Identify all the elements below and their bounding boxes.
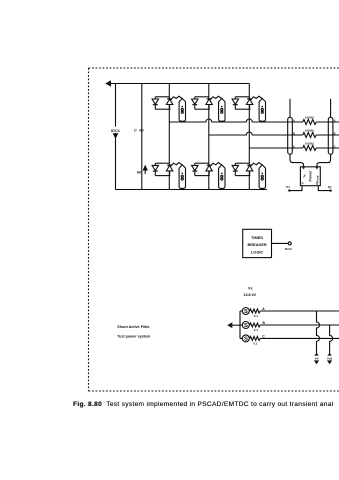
svg-text:C: C [134, 129, 137, 133]
wire: top DC bus [106, 83, 249, 85]
thyristor (forward) [232, 97, 238, 109]
wire: right bus to power meter "From" [317, 154, 331, 167]
wire: converter leg 2 vertical [208, 84, 210, 190]
thyristor (antiparallel) [166, 165, 172, 175]
resistor 0.0001 phase A [303, 120, 316, 125]
resistor 0.1 phase B [250, 323, 261, 327]
svg-text:C: C [293, 144, 295, 148]
svg-text:Power: Power [309, 170, 313, 181]
wire: anode tie [195, 96, 209, 98]
terminal Q1 [318, 186, 330, 191]
svg-text:A: A [293, 118, 295, 122]
wire: anode tie [195, 162, 209, 164]
wire: DC capacitor branch vertical [141, 84, 143, 190]
resistor 0.0001 phase C [303, 146, 316, 151]
svg-text:60: 60 [139, 129, 143, 133]
svg-text:0.1: 0.1 [254, 328, 259, 332]
svg-text:0.0001: 0.0001 [305, 115, 315, 119]
wire: stubs bus to sources [240, 311, 242, 338]
thyristor (forward) [192, 97, 198, 109]
snubber/firing valve pill [259, 165, 265, 189]
svg-text:C: C [334, 144, 336, 148]
svg-text:B: B [293, 131, 295, 135]
wire: converter leg 1 vertical [168, 84, 170, 190]
wire: cathode tie [235, 108, 250, 110]
wire: anode tie [235, 96, 249, 98]
svg-text:60: 60 [137, 170, 141, 174]
wire: gate lead [210, 96, 222, 100]
valve group leg2 lower [192, 163, 225, 189]
wire: cathode tie [155, 175, 170, 177]
figure caption [73, 401, 339, 408]
svg-text:A: A [334, 118, 336, 122]
wire: gate lead [251, 163, 263, 167]
svg-text:S: S [244, 323, 248, 329]
wire: cathode tie [235, 175, 250, 177]
wire: voltmeter tap 1 with hops [317, 311, 320, 354]
terminal Brk1 [288, 242, 291, 245]
label Vs 13.8 kV [243, 286, 256, 297]
power meter block U1 [300, 167, 320, 186]
thyristor (antiparallel) [206, 165, 212, 175]
snubber/firing valve pill [179, 98, 185, 121]
node labels A B C at left bus [293, 118, 295, 148]
valve group leg3 lower [232, 163, 265, 189]
thyristor (antiparallel) [206, 99, 212, 109]
svg-text:Vs: Vs [248, 286, 253, 290]
figure dashed frame bottom [89, 390, 339, 392]
wire: voltmeter tap 2 with hop [330, 325, 333, 354]
svg-text:TIMED: TIMED [251, 235, 263, 240]
svg-text:P1: P1 [286, 185, 290, 189]
svg-text:0.0001: 0.0001 [305, 141, 315, 145]
voltmeter Vd1 [327, 353, 333, 365]
wire: source common vertical [239, 311, 241, 338]
arrow: capacitor current (up) [143, 166, 147, 174]
valve group leg2 upper [192, 96, 225, 121]
node labels A B C at right bus [334, 118, 336, 148]
AC source Vc [242, 335, 249, 342]
wire: source phase A line [260, 310, 339, 312]
arrow: DC bus continuation (left) [105, 80, 111, 86]
svg-text:0.1: 0.1 [253, 342, 258, 346]
wire: converter leg 3 vertical [248, 84, 250, 190]
wire: gate lead [171, 96, 183, 100]
svg-text:BREAKER: BREAKER [247, 242, 266, 247]
snubber/firing valve pill [219, 165, 225, 189]
AC source Vb [242, 322, 249, 329]
snubber/firing valve pill [219, 98, 225, 121]
bus B2 (right vertical bus bar) [328, 117, 333, 154]
bus B1 (left vertical bus bar) [288, 117, 293, 154]
svg-text:13.8 kV: 13.8 kV [243, 293, 256, 297]
voltmeter Vd [314, 353, 319, 365]
arrow: IDC1 current direction (down) [114, 133, 118, 138]
svg-text:Brk1: Brk1 [285, 247, 292, 251]
thyristor (forward) [152, 163, 158, 175]
thyristor (forward) [152, 97, 158, 109]
wire: cathode tie [155, 108, 170, 110]
wire: left bus to power meter "To" [290, 154, 304, 167]
wire: gate lead [210, 163, 222, 167]
arrow: source continuation (left) [231, 324, 240, 326]
wire: anode tie [235, 162, 249, 164]
wire: source phase C line [260, 337, 339, 339]
svg-text:S: S [244, 337, 248, 343]
wire: anode tie [155, 162, 169, 164]
thyristor (forward) [192, 163, 198, 175]
wire: bottom DC bus [116, 189, 267, 191]
svg-text:S: S [244, 309, 248, 315]
valve group leg1 upper [152, 96, 185, 121]
svg-text:P: P [302, 182, 304, 186]
wire: stub above right bus [330, 99, 332, 118]
thyristor (antiparallel) [246, 99, 252, 109]
wire: source phase B line [260, 324, 339, 326]
snubber/firing valve pill [259, 98, 265, 121]
wire: anode tie [155, 96, 169, 98]
svg-text:B: B [334, 131, 336, 135]
resistor 0.1 phase A [250, 309, 261, 313]
resistor 0.1 phase C [250, 336, 261, 340]
wire: breaker logic output [272, 242, 288, 244]
valve group leg1 lower [152, 163, 185, 189]
svg-text:Shunt Active Filter: Shunt Active Filter [117, 325, 150, 329]
terminal P1 [291, 186, 303, 191]
wire: gate lead [171, 163, 183, 167]
thyristor (antiparallel) [246, 165, 252, 175]
figure dashed frame left [88, 68, 90, 391]
wire: phase B line with crossover hop [209, 132, 339, 135]
wire: DC measuring branch vertical [115, 84, 117, 190]
wire: phase A line with crossover hops [169, 119, 339, 122]
valve group leg3 upper [232, 96, 265, 121]
svg-text:IDC1: IDC1 [111, 128, 121, 133]
svg-text:Q1: Q1 [328, 185, 332, 189]
svg-text:Vd1: Vd1 [327, 357, 333, 361]
snubber/firing valve pill [179, 165, 185, 189]
wire: stub above left bus [289, 99, 291, 118]
AC source Va [242, 308, 249, 315]
wire: gate lead [251, 96, 263, 100]
thyristor (forward) [232, 163, 238, 175]
figure dashed frame top [89, 67, 339, 69]
wire: cathode tie [195, 108, 210, 110]
svg-text:Vd: Vd [315, 357, 319, 361]
wire: phase C line [249, 147, 339, 149]
svg-text:Test power system: Test power system [117, 334, 151, 338]
thyristor (antiparallel) [166, 99, 172, 109]
resistor 0.0001 phase B [303, 133, 316, 138]
wire: cathode tie [195, 175, 210, 177]
svg-text:To: To [303, 174, 307, 178]
timed breaker logic block [243, 229, 272, 257]
svg-text:0.1: 0.1 [254, 314, 259, 318]
svg-text:LOGIC: LOGIC [251, 249, 264, 254]
svg-text:0.0001: 0.0001 [305, 128, 315, 132]
